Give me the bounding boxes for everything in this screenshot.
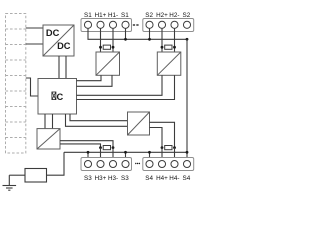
shield bus top wire xyxy=(88,28,187,39)
svg-text:H2-: H2- xyxy=(169,12,179,19)
terminal H3+ xyxy=(97,160,104,167)
wire bus-to-DCDC upper xyxy=(26,27,43,29)
microcontroller U2 xyxy=(38,79,77,115)
svg-text:S4: S4 xyxy=(183,175,191,182)
svg-text:H3+: H3+ xyxy=(95,175,107,182)
wire U3-to-uC b xyxy=(77,75,113,86)
wire S1 right drop xyxy=(125,28,127,39)
wire H2+ drop xyxy=(161,28,163,52)
svg-text:S1: S1 xyxy=(121,12,129,19)
svg-text:H3-: H3- xyxy=(108,175,118,182)
wire S3 left drop xyxy=(87,152,89,161)
terminal H2- xyxy=(171,21,178,28)
wire H2- drop xyxy=(174,28,176,52)
wire uC-to-U5 a xyxy=(44,114,46,129)
wire U6-to-H4+ xyxy=(150,128,163,148)
terminal H1- xyxy=(109,21,116,28)
wire S3 right drop xyxy=(125,152,127,161)
svg-text:S4: S4 xyxy=(145,175,153,182)
shield vertical wire right xyxy=(186,39,188,152)
junction R1 left xyxy=(99,46,102,49)
terminal S1 left xyxy=(84,21,91,28)
isolation amplifier U6 xyxy=(128,112,150,135)
terminal block X1 (S1 H1+ H1- S1) xyxy=(81,19,132,32)
wire S2 left drop xyxy=(149,28,151,39)
resistor R4 xyxy=(165,146,172,150)
svg-text:H4-: H4- xyxy=(169,175,179,182)
terminal H4+ xyxy=(158,160,165,167)
ground xyxy=(3,175,17,190)
terminal block X2 (S2 H2+ H2- S2) xyxy=(143,19,194,32)
wire ground-to-Z1 xyxy=(9,174,25,176)
junction R2 right xyxy=(173,46,176,49)
junction R3 left xyxy=(99,146,102,149)
isolation amplifier U5 xyxy=(37,129,60,149)
wire H1+ drop xyxy=(100,28,102,52)
junction R2 left xyxy=(161,46,164,49)
shield bus bottom wire xyxy=(64,151,187,153)
wire S4 right drop xyxy=(186,152,188,161)
junction S1 right xyxy=(124,38,127,41)
wire U4-to-uC b xyxy=(77,75,175,99)
terminal S3 right xyxy=(122,160,129,167)
continuation dashes top xyxy=(133,24,139,26)
continuation dots bottom xyxy=(135,163,140,164)
wire U5-to-H3+ xyxy=(60,144,101,148)
wire H3- drop xyxy=(112,148,114,161)
junction S2 right xyxy=(186,38,189,41)
wire DCDC-to-uC right xyxy=(65,56,67,79)
terminal block X4 (S4 H4+ H4- S4) xyxy=(143,158,194,171)
svg-text:C: C xyxy=(57,92,64,102)
wire U6-to-H4- xyxy=(150,122,175,147)
terminal H1+ xyxy=(97,21,104,28)
terminal S2 right xyxy=(183,21,190,28)
microcontroller label (tofu mu glyph) xyxy=(52,92,56,100)
wire H4- drop xyxy=(174,148,176,161)
wire U3-to-uC a xyxy=(77,75,102,80)
svg-text:S2: S2 xyxy=(145,12,153,19)
svg-text:H1-: H1- xyxy=(108,12,118,19)
svg-text:S1: S1 xyxy=(84,12,92,19)
DC/DC converter U1 xyxy=(43,25,74,56)
svg-text:S3: S3 xyxy=(121,175,129,182)
svg-text:H2+: H2+ xyxy=(156,12,168,19)
junction R4 left xyxy=(161,146,164,149)
svg-text:S2: S2 xyxy=(183,12,191,19)
terminal H4- xyxy=(171,160,178,167)
backplane bus connector (dashed column) xyxy=(6,14,26,154)
junction R1 right xyxy=(112,46,115,49)
svg-text:S3: S3 xyxy=(84,175,92,182)
wire Z1-to-shield-bus xyxy=(47,152,65,175)
junction S4 left xyxy=(148,151,151,154)
junction R4 right xyxy=(173,146,176,149)
terminal H2+ xyxy=(158,21,165,28)
svg-text:DC: DC xyxy=(46,28,60,38)
junction S3 left xyxy=(87,151,90,154)
junction S3 right xyxy=(124,151,127,154)
wire uC-to-U6 b xyxy=(70,114,128,121)
wire U4-to-uC a xyxy=(77,75,163,95)
terminal S1 right xyxy=(122,21,129,28)
resistor R2 xyxy=(165,45,172,49)
terminal H3- xyxy=(109,160,116,167)
svg-text:DC: DC xyxy=(57,41,71,51)
wire H1- drop xyxy=(112,28,114,52)
terminal block X3 (S3 H3+ H3- S3) xyxy=(81,158,132,171)
junction R3 right xyxy=(112,146,115,149)
ground filter Z1 xyxy=(25,169,47,183)
terminal S4 left xyxy=(146,160,153,167)
terminal S4 right xyxy=(183,160,190,167)
resistor R3 xyxy=(103,146,110,150)
svg-text:H1+: H1+ xyxy=(95,12,107,19)
wire bus-to-DCDC lower xyxy=(26,43,43,45)
terminal S2 left xyxy=(146,21,153,28)
junction S2 left xyxy=(148,38,151,41)
wire uC-to-U6 a xyxy=(66,114,128,126)
wire H3+ drop xyxy=(100,148,102,161)
wire U5-to-H3- xyxy=(60,141,113,148)
wire S4 left drop xyxy=(149,152,151,161)
wire bus-to-uC xyxy=(26,78,38,96)
svg-text:H4+: H4+ xyxy=(156,175,168,182)
wire DCDC-to-uC left xyxy=(58,56,60,79)
junction S4 right xyxy=(186,151,189,154)
isolation amplifier U4 xyxy=(157,52,181,75)
wire H4+ drop xyxy=(161,148,163,161)
terminal S3 left xyxy=(84,160,91,167)
wire uC-to-U5 b xyxy=(52,114,54,129)
resistor R1 xyxy=(103,45,110,49)
isolation amplifier U3 xyxy=(96,52,120,75)
